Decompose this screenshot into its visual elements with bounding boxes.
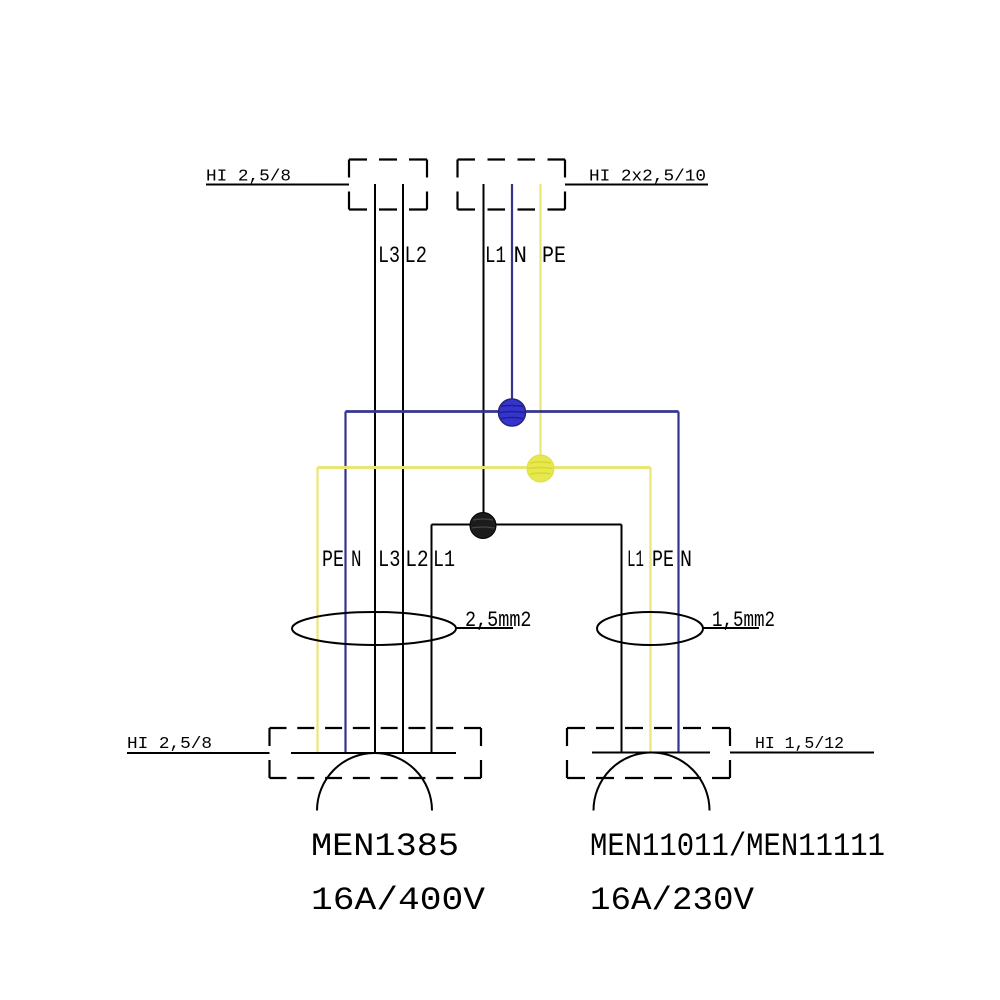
svg-text:HI 1,5/12: HI 1,5/12 — [755, 735, 844, 754]
terminal box HI 2x2,5/10 (top-right, dashed) — [458, 160, 566, 210]
wire N left drop (blue) — [344, 412, 346, 754]
svg-text:16A/230V: 16A/230V — [590, 882, 755, 919]
wire from HI 2,5/8 label to top-left terminal box — [206, 184, 349, 186]
svg-text:16A/400V: 16A/400V — [311, 882, 486, 919]
socket arc MEN1385 — [317, 753, 432, 810]
wire L1 right drop (black) — [621, 525, 623, 753]
wire PE (yellow, from top-right box down to junction) — [539, 184, 541, 468]
cable ellipse 2,5mm2 (left) — [292, 612, 456, 645]
svg-text:L2: L2 — [405, 243, 428, 269]
wire L2 (black, from top-left box to bottom-left box) — [402, 184, 404, 753]
svg-text:N: N — [514, 243, 528, 269]
terminal box HI 2,5/8 (top-left, dashed) — [349, 160, 427, 210]
leader line 2,5mm2 — [457, 627, 514, 629]
svg-text:PE: PE — [542, 243, 566, 269]
junction dot N (blue) — [499, 399, 526, 426]
wire N (blue, from top-right box down to junction) — [511, 184, 513, 412]
wire L1 (black, from top-right box down to junction) — [483, 184, 485, 525]
socket arc MEN11011 — [594, 753, 710, 811]
svg-text:L1: L1 — [627, 547, 644, 573]
svg-text:MEN1385: MEN1385 — [311, 828, 459, 865]
svg-text:PE: PE — [652, 547, 674, 573]
label HI 2,5/8 top-left — [206, 168, 291, 187]
label HI 2x2,5/10 top-right — [589, 168, 706, 187]
wire PE right drop (yellow) — [649, 468, 651, 753]
junction dot L1 (black) — [470, 513, 496, 539]
wire from top-right terminal box to HI 2x2,5/10 label — [565, 184, 708, 186]
terminal box bottom-right (dashed) — [567, 728, 730, 778]
junction dot PE (yellow) — [527, 455, 554, 482]
svg-text:L1: L1 — [433, 547, 455, 573]
wire from HI 2,5/8 bottom label to bottom-left box — [127, 752, 270, 754]
svg-text:PE: PE — [322, 547, 344, 573]
wire N distribution (blue horizontal) — [346, 410, 679, 413]
svg-text:L1: L1 — [485, 243, 506, 269]
svg-text:L2: L2 — [405, 547, 429, 573]
svg-text:HI 2,5/8: HI 2,5/8 — [127, 735, 212, 754]
leader line 1,5mm2 — [703, 627, 759, 629]
cable ellipse 1,5mm2 (right) — [597, 612, 703, 645]
terminal box bottom-left (dashed) — [270, 728, 482, 778]
svg-text:MEN11011/MEN11111: MEN11011/MEN11111 — [590, 828, 885, 865]
wire N right drop (blue) — [677, 412, 679, 753]
wire PE distribution (yellow horizontal) — [318, 466, 651, 469]
wire L1 distribution (black horizontal) — [432, 524, 622, 526]
terminal bar bottom-right (solid) — [592, 752, 710, 754]
svg-text:L3: L3 — [378, 547, 400, 573]
wire from bottom-right box to HI 1,5/12 label — [730, 752, 874, 754]
svg-text:N: N — [680, 547, 692, 573]
svg-text:2,5mm2: 2,5mm2 — [465, 608, 532, 633]
terminal bar bottom-left (solid) — [291, 752, 456, 754]
wire L1 left drop (black) — [431, 525, 433, 754]
svg-text:1,5mm2: 1,5mm2 — [712, 608, 775, 633]
wire L3 (black, from top-left box to bottom-left box) — [374, 184, 376, 753]
svg-text:L3: L3 — [378, 243, 400, 269]
wire PE left drop (yellow) — [316, 468, 318, 754]
svg-text:N: N — [351, 547, 362, 573]
